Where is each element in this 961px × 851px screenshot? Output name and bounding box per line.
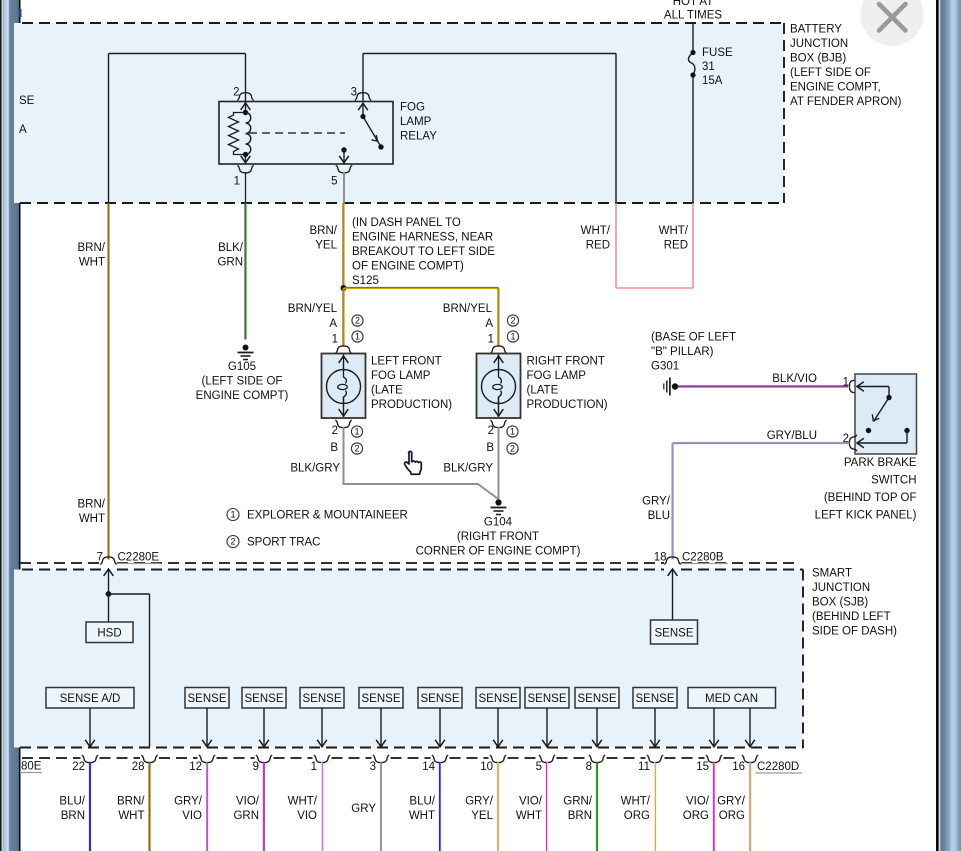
wire VIO//WHT (pin 5) bbox=[545, 762, 547, 851]
splice S125 bbox=[341, 285, 347, 291]
SENSE box (x=207) bbox=[185, 688, 229, 709]
svg-text:ENGINE COMPT): ENGINE COMPT) bbox=[196, 390, 289, 402]
svg-text:1: 1 bbox=[354, 427, 359, 437]
relay pin 1 connector bbox=[237, 165, 253, 173]
svg-text:WHT/: WHT/ bbox=[659, 225, 689, 237]
svg-text:BRN: BRN bbox=[61, 810, 85, 822]
svg-text:ORG: ORG bbox=[624, 810, 650, 822]
arrow SENSE to connector (x=547) bbox=[546, 708, 548, 747]
relay coil bbox=[241, 103, 251, 110]
svg-text:SENSE: SENSE bbox=[245, 693, 284, 705]
svg-text:C2280D: C2280D bbox=[757, 761, 799, 773]
arrow SENSE to connector (x=264) bbox=[263, 708, 265, 747]
svg-text:(LATE: (LATE bbox=[527, 385, 559, 397]
svg-text:SIDE OF DASH): SIDE OF DASH) bbox=[812, 626, 897, 638]
SENSE box (x=498) bbox=[476, 688, 520, 709]
ground G301 bbox=[663, 384, 665, 390]
wire VIO//GRN (pin 9) bbox=[262, 762, 264, 851]
relay pin 5 connector bbox=[336, 165, 352, 173]
wire GRY//ORG (pin 16) bbox=[748, 762, 750, 851]
SENSE box (pin 18) bbox=[651, 620, 698, 644]
svg-text:VIO/: VIO/ bbox=[686, 796, 710, 808]
arrow MED CAN to pin 15 bbox=[713, 708, 715, 747]
svg-text:BRN: BRN bbox=[568, 810, 592, 822]
wire GRY//YEL (pin 10) bbox=[496, 762, 498, 851]
svg-text:GRY/: GRY/ bbox=[642, 496, 671, 508]
right front fog lamp bbox=[490, 346, 506, 354]
svg-text:BLK/VIO: BLK/VIO bbox=[772, 373, 817, 385]
svg-text:GRY/: GRY/ bbox=[174, 796, 203, 808]
wire WHT//VIO (pin 1) bbox=[320, 762, 322, 851]
svg-text:2: 2 bbox=[233, 87, 239, 99]
relay switch contact bbox=[362, 103, 364, 114]
wire BLU//WHT (pin 14) bbox=[438, 762, 440, 851]
svg-text:SENSE: SENSE bbox=[578, 693, 617, 705]
svg-text:A: A bbox=[19, 124, 27, 136]
connector pin 22 bbox=[82, 755, 98, 763]
fuse 31 15A bbox=[690, 50, 695, 55]
ground G105 bbox=[243, 345, 249, 351]
svg-text:80E: 80E bbox=[21, 761, 42, 773]
svg-text:18: 18 bbox=[654, 552, 667, 564]
battery junction box (BJB) outline bbox=[14, 23, 784, 203]
svg-text:15: 15 bbox=[696, 761, 709, 773]
svg-text:5: 5 bbox=[536, 761, 542, 773]
connector pin 15 bbox=[706, 755, 722, 763]
svg-text:LEFT KICK PANEL): LEFT KICK PANEL) bbox=[815, 510, 917, 522]
svg-text:ORG: ORG bbox=[683, 810, 709, 822]
svg-text:ENGINE COMPT,: ENGINE COMPT, bbox=[790, 82, 881, 94]
svg-text:SWITCH: SWITCH bbox=[871, 475, 916, 487]
svg-text:B: B bbox=[330, 442, 338, 454]
wire relay pin 5 stub (in BJB) bbox=[343, 172, 345, 203]
svg-text:3: 3 bbox=[370, 761, 376, 773]
HSD box bbox=[86, 622, 133, 643]
svg-text:5: 5 bbox=[331, 176, 337, 188]
svg-text:ALL TIMES: ALL TIMES bbox=[664, 10, 722, 22]
relay pin 5 contact bbox=[341, 147, 346, 152]
svg-text:SENSE: SENSE bbox=[636, 693, 675, 705]
park brake switch contacts bbox=[857, 382, 864, 392]
svg-text:GRY/: GRY/ bbox=[465, 796, 494, 808]
svg-text:11: 11 bbox=[638, 761, 650, 773]
svg-text:(BEHIND LEFT: (BEHIND LEFT bbox=[812, 611, 891, 623]
svg-text:PARK BRAKE: PARK BRAKE bbox=[844, 457, 917, 469]
svg-text:GRY/BLU: GRY/BLU bbox=[767, 430, 817, 442]
svg-text:WHT: WHT bbox=[409, 810, 435, 822]
wire BLK/GRY right lamp to G104 bbox=[498, 427, 500, 501]
harness boundary dashed line bbox=[20, 562, 101, 564]
arrow SENSE to connector (x=440) bbox=[439, 708, 441, 747]
connector pin 11 bbox=[647, 755, 663, 763]
svg-text:GRN/: GRN/ bbox=[563, 796, 593, 808]
svg-text:BLU: BLU bbox=[648, 510, 670, 522]
connector pin 14 bbox=[432, 755, 448, 763]
svg-text:FOG: FOG bbox=[400, 102, 425, 114]
right scrollbar bbox=[936, 0, 961, 851]
svg-text:HOT AT: HOT AT bbox=[673, 0, 713, 8]
svg-text:SENSE: SENSE bbox=[528, 693, 567, 705]
svg-text:(IN DASH PANEL TO: (IN DASH PANEL TO bbox=[352, 217, 461, 229]
arrow MED CAN to pin 16 bbox=[749, 708, 751, 747]
svg-text:BLK/GRY: BLK/GRY bbox=[443, 463, 493, 475]
svg-text:A: A bbox=[329, 318, 337, 330]
svg-text:PRODUCTION): PRODUCTION) bbox=[527, 399, 608, 411]
svg-text:BOX (SJB): BOX (SJB) bbox=[812, 597, 868, 609]
svg-text:AT FENDER APRON): AT FENDER APRON) bbox=[790, 96, 902, 108]
legend sport trac bbox=[227, 536, 239, 548]
wire BLK/GRN relay pin 1 to G105 bbox=[245, 172, 247, 203]
svg-text:1: 1 bbox=[843, 377, 849, 389]
svg-text:1: 1 bbox=[234, 176, 240, 188]
wire VIO//ORG (pin 15) bbox=[712, 762, 714, 851]
left front fog lamp bbox=[335, 346, 351, 354]
svg-text:22: 22 bbox=[72, 761, 85, 773]
svg-text:RED: RED bbox=[664, 240, 688, 252]
arrow SENSE to connector (x=655) bbox=[654, 708, 656, 747]
svg-text:BRN/: BRN/ bbox=[117, 796, 145, 808]
svg-text:(BASE OF LEFT: (BASE OF LEFT bbox=[651, 332, 736, 344]
svg-text:2: 2 bbox=[332, 425, 338, 437]
svg-text:PRODUCTION): PRODUCTION) bbox=[371, 399, 452, 411]
SENSE box (x=381) bbox=[359, 688, 403, 709]
wire WHT/RED (relay pin 3 branch) bbox=[615, 203, 617, 288]
SENSE box (x=547) bbox=[525, 688, 569, 709]
wire: fuse 31 feed bbox=[692, 23, 694, 52]
svg-text:FOG LAMP: FOG LAMP bbox=[527, 370, 587, 382]
svg-text:14: 14 bbox=[422, 761, 435, 773]
svg-text:(RIGHT FRONT: (RIGHT FRONT bbox=[457, 531, 539, 543]
svg-text:2: 2 bbox=[354, 444, 359, 454]
svg-text:C2280E: C2280E bbox=[118, 552, 160, 564]
svg-text:1: 1 bbox=[510, 427, 515, 437]
svg-text:2: 2 bbox=[488, 425, 494, 437]
fog lamp relay box bbox=[219, 102, 393, 165]
wire BLU//BRN (pin 22) bbox=[88, 762, 90, 851]
svg-text:LEFT FRONT: LEFT FRONT bbox=[371, 356, 442, 368]
close button bbox=[861, 0, 924, 46]
svg-text:RIGHT FRONT: RIGHT FRONT bbox=[527, 356, 605, 368]
svg-text:YEL: YEL bbox=[471, 810, 493, 822]
connector row dashed line bbox=[22, 757, 81, 759]
svg-text:3: 3 bbox=[351, 87, 357, 99]
svg-text:10: 10 bbox=[480, 761, 493, 773]
svg-text:MED CAN: MED CAN bbox=[705, 693, 758, 705]
connector pin 28 bbox=[141, 755, 157, 763]
connector pin 8 bbox=[589, 755, 605, 763]
svg-text:VIO: VIO bbox=[297, 810, 317, 822]
svg-text:1: 1 bbox=[230, 510, 235, 520]
svg-text:BLU/: BLU/ bbox=[59, 796, 85, 808]
wire BRN//WHT (pin 28) bbox=[148, 762, 150, 851]
svg-text:1: 1 bbox=[355, 332, 360, 342]
svg-text:G105: G105 bbox=[228, 361, 256, 373]
relay pin 3 connector bbox=[355, 93, 371, 101]
svg-text:1: 1 bbox=[488, 334, 494, 346]
SENSE box (x=655) bbox=[633, 688, 677, 709]
SENSE box (x=597) bbox=[575, 688, 619, 709]
svg-text:BRN/: BRN/ bbox=[78, 242, 106, 254]
svg-text:SENSE: SENSE bbox=[479, 693, 518, 705]
smart junction box (SJB) outline bbox=[14, 570, 803, 748]
arrow SENSE A/D to pin 22 bbox=[89, 708, 91, 747]
svg-text:BREAKOUT TO LEFT SIDE: BREAKOUT TO LEFT SIDE bbox=[352, 246, 495, 258]
svg-text:SENSE: SENSE bbox=[655, 628, 694, 640]
SENSE box (x=264) bbox=[242, 688, 286, 709]
svg-text:SENSE: SENSE bbox=[303, 693, 342, 705]
svg-text:BLK/: BLK/ bbox=[218, 242, 244, 254]
svg-text:WHT/: WHT/ bbox=[288, 796, 318, 808]
svg-text:LAMP: LAMP bbox=[400, 116, 432, 128]
svg-text:1: 1 bbox=[311, 761, 317, 773]
svg-text:CORNER OF ENGINE COMPT): CORNER OF ENGINE COMPT) bbox=[416, 546, 581, 558]
svg-text:SMART: SMART bbox=[812, 568, 852, 580]
svg-text:BATTERY: BATTERY bbox=[790, 24, 842, 36]
svg-text:VIO/: VIO/ bbox=[519, 796, 543, 808]
svg-text:BRN/YEL: BRN/YEL bbox=[288, 303, 338, 315]
svg-text:GRY/: GRY/ bbox=[717, 796, 746, 808]
svg-text:SENSE: SENSE bbox=[188, 693, 227, 705]
svg-text:JUNCTION: JUNCTION bbox=[790, 38, 848, 50]
svg-text:2: 2 bbox=[510, 444, 515, 454]
svg-text:S125: S125 bbox=[352, 275, 379, 287]
svg-text:WHT: WHT bbox=[118, 810, 144, 822]
wire WHT/RED (fuse output) bbox=[692, 203, 694, 288]
svg-text:WHT: WHT bbox=[516, 810, 542, 822]
left scrollbar bbox=[0, 0, 21, 851]
svg-text:2: 2 bbox=[510, 316, 515, 326]
svg-text:JUNCTION: JUNCTION bbox=[812, 582, 870, 594]
svg-text:A: A bbox=[485, 318, 493, 330]
svg-text:1: 1 bbox=[332, 334, 338, 346]
park brake switch box bbox=[855, 374, 917, 454]
connector pin 16 bbox=[742, 755, 758, 763]
clipped text fragment (top left) bbox=[19, 9, 22, 17]
svg-text:WHT/: WHT/ bbox=[581, 225, 611, 237]
arrow SENSE to connector (x=207) bbox=[206, 708, 208, 747]
SENSE A/D box bbox=[46, 688, 134, 709]
arrow SENSE to connector (x=322) bbox=[321, 708, 323, 747]
arrow SENSE to connector (x=381) bbox=[380, 708, 382, 747]
connector pin 12 bbox=[199, 755, 215, 763]
SENSE box (x=440) bbox=[418, 688, 462, 709]
svg-text:9: 9 bbox=[253, 761, 259, 773]
svg-text:WHT: WHT bbox=[79, 257, 105, 269]
svg-text:16: 16 bbox=[732, 761, 745, 773]
connector pin 1 bbox=[314, 755, 330, 763]
svg-text:1: 1 bbox=[510, 332, 515, 342]
wire BRN/YEL to left fog lamp bbox=[342, 288, 344, 346]
svg-text:BRN/: BRN/ bbox=[310, 225, 338, 237]
wire WHT//ORG (pin 11) bbox=[653, 762, 655, 851]
wire GRN//BRN (pin 8) bbox=[595, 762, 597, 851]
svg-text:8: 8 bbox=[586, 761, 592, 773]
SENSE box (x=322) bbox=[300, 688, 344, 709]
svg-text:SENSE: SENSE bbox=[362, 693, 401, 705]
svg-text:BRN/: BRN/ bbox=[78, 499, 106, 511]
connector pin 3 bbox=[373, 755, 389, 763]
svg-text:BLU/: BLU/ bbox=[409, 796, 435, 808]
svg-text:C2280B: C2280B bbox=[682, 552, 724, 564]
svg-text:OF ENGINE COMPT): OF ENGINE COMPT) bbox=[352, 261, 464, 273]
legend explorer & mountaineer bbox=[227, 509, 239, 521]
junction to HSD bbox=[106, 591, 112, 597]
svg-text:VIO: VIO bbox=[182, 810, 202, 822]
connector pin 5 bbox=[539, 755, 555, 763]
svg-text:2: 2 bbox=[355, 316, 360, 326]
svg-text:BLK/GRY: BLK/GRY bbox=[290, 463, 340, 475]
svg-text:G104: G104 bbox=[484, 517, 513, 529]
svg-text:G301: G301 bbox=[651, 361, 679, 373]
svg-text:SE: SE bbox=[19, 95, 35, 107]
wire BLK/GRY left lamp to G104 bbox=[343, 427, 345, 483]
relay pin 2 connector bbox=[237, 93, 253, 101]
svg-text:(LEFT SIDE OF: (LEFT SIDE OF bbox=[790, 67, 871, 79]
svg-text:31: 31 bbox=[702, 61, 715, 73]
svg-text:FUSE: FUSE bbox=[702, 47, 733, 59]
arrow SENSE to connector (x=498) bbox=[497, 708, 499, 747]
arrow SENSE to connector (x=597) bbox=[596, 708, 598, 747]
svg-text:B: B bbox=[486, 442, 494, 454]
svg-text:FOG LAMP: FOG LAMP bbox=[371, 370, 431, 382]
svg-text:RED: RED bbox=[586, 240, 610, 252]
svg-text:YEL: YEL bbox=[315, 240, 337, 252]
svg-text:SENSE: SENSE bbox=[421, 693, 460, 705]
wire: relay pin 3 to fuse branch bbox=[362, 54, 364, 102]
svg-text:VIO/: VIO/ bbox=[236, 796, 260, 808]
svg-text:BRN/YEL: BRN/YEL bbox=[443, 303, 493, 315]
wire GRY//VIO (pin 12) bbox=[205, 762, 207, 851]
connector pin 10 bbox=[490, 755, 506, 763]
svg-text:(LATE: (LATE bbox=[371, 385, 403, 397]
svg-text:"B" PILLAR): "B" PILLAR) bbox=[651, 346, 714, 358]
wire BRN/YEL branch to right fog lamp bbox=[344, 286, 499, 288]
svg-text:15A: 15A bbox=[702, 75, 723, 87]
connector pin 9 bbox=[256, 755, 272, 763]
svg-text:RELAY: RELAY bbox=[400, 131, 437, 143]
svg-text:WHT/: WHT/ bbox=[621, 796, 651, 808]
wire BRN/WHT to connector C2280E pin 7 bbox=[108, 203, 110, 560]
ground G104 bbox=[495, 499, 501, 505]
wire GRY/BLU switch pin 2 to connector C2280B pin 18 bbox=[673, 441, 850, 443]
svg-text:BOX (BJB): BOX (BJB) bbox=[790, 53, 846, 65]
relay actuation dashed line bbox=[249, 132, 345, 134]
wire GRY (pin 3) bbox=[379, 762, 381, 851]
svg-text:ENGINE HARNESS, NEAR: ENGINE HARNESS, NEAR bbox=[352, 232, 493, 244]
wire BLK/VIO G301 to park brake switch pin 1 bbox=[678, 385, 848, 387]
svg-text:(LEFT SIDE OF: (LEFT SIDE OF bbox=[202, 376, 283, 388]
wire: relay pin 2 feed (top-left loop) bbox=[109, 53, 246, 55]
svg-text:SPORT TRAC: SPORT TRAC bbox=[247, 537, 321, 549]
MED CAN box bbox=[688, 688, 776, 709]
svg-text:2: 2 bbox=[230, 537, 235, 547]
svg-text:28: 28 bbox=[132, 761, 145, 773]
svg-text:GRN: GRN bbox=[233, 810, 259, 822]
svg-text:WHT: WHT bbox=[79, 513, 105, 525]
svg-text:EXPLORER & MOUNTAINEER: EXPLORER & MOUNTAINEER bbox=[247, 510, 408, 522]
mouse cursor bbox=[405, 451, 422, 474]
wire to connector pin 28 bbox=[149, 594, 151, 747]
svg-text:12: 12 bbox=[189, 761, 202, 773]
svg-text:ORG: ORG bbox=[719, 810, 745, 822]
svg-text:GRY: GRY bbox=[351, 803, 376, 815]
wire BRN/YEL relay pin 5 to splice S125 bbox=[342, 203, 344, 288]
svg-text:SENSE A/D: SENSE A/D bbox=[60, 693, 121, 705]
svg-text:(BEHIND TOP OF: (BEHIND TOP OF bbox=[824, 492, 917, 504]
svg-text:GRN: GRN bbox=[217, 257, 243, 269]
svg-text:HSD: HSD bbox=[97, 628, 121, 640]
